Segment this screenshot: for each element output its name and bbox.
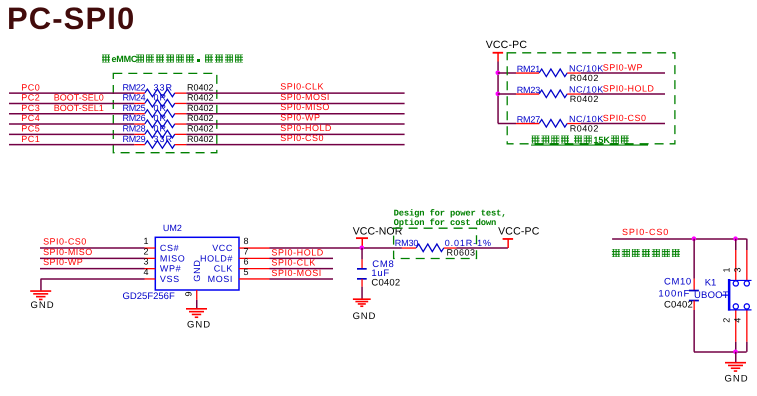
wire to RM21 bbox=[498, 72, 516, 74]
wire junction to CM8 bbox=[361, 248, 363, 260]
wire net SPI0-CS0 to UM2 bbox=[40, 247, 145, 249]
svg-text:R0402: R0402 bbox=[570, 94, 599, 104]
svg-text:SPI0-MISO: SPI0-MISO bbox=[43, 247, 93, 257]
svg-text:GD25F256F: GD25F256F bbox=[123, 291, 175, 302]
svg-text:RM23: RM23 bbox=[517, 85, 541, 95]
svg-text:RM25: RM25 bbox=[123, 103, 146, 113]
svg-text:RM28: RM28 bbox=[123, 124, 146, 134]
wire net SPI0-CS0 right segment bbox=[186, 144, 404, 146]
svg-text:R0402: R0402 bbox=[187, 134, 214, 144]
resistor RM28 0R bbox=[123, 124, 214, 138]
pin 4 (VSS) of UM2 bbox=[143, 267, 179, 284]
svg-text:4: 4 bbox=[143, 267, 148, 277]
wire net SPI0-MOSI right segment bbox=[186, 102, 404, 104]
svg-text:GND: GND bbox=[31, 300, 55, 311]
svg-text:5: 5 bbox=[244, 267, 249, 277]
annotation: Design for power test / Option for cost down bbox=[394, 209, 507, 228]
svg-text:GND: GND bbox=[192, 259, 202, 281]
svg-text:K1: K1 bbox=[705, 278, 717, 289]
wire net SPI0-WP bbox=[581, 72, 665, 74]
svg-text:SPI0-MISO: SPI0-MISO bbox=[280, 102, 330, 112]
wire to CM10 bbox=[693, 239, 695, 279]
wire net SPI0-HOLD from UM2 bbox=[270, 257, 334, 259]
svg-text:MOSI: MOSI bbox=[208, 274, 233, 284]
svg-text:VCC-PC: VCC-PC bbox=[486, 39, 528, 51]
svg-text:SPI0-WP: SPI0-WP bbox=[280, 113, 320, 123]
svg-text:3: 3 bbox=[143, 257, 148, 267]
svg-text:VSS: VSS bbox=[160, 274, 180, 284]
svg-text:SPI0-MOSI: SPI0-MOSI bbox=[280, 92, 330, 102]
dashed box around RM30 bbox=[394, 228, 477, 258]
wire switch pin 1 drop bbox=[735, 239, 737, 250]
flash chip UM2 body bbox=[155, 237, 239, 290]
junction at ground rail bbox=[733, 350, 738, 355]
svg-text:PC5: PC5 bbox=[21, 124, 40, 134]
svg-text:SPI0-CS0: SPI0-CS0 bbox=[622, 227, 669, 237]
svg-text:0R: 0R bbox=[154, 103, 168, 113]
svg-text:7: 7 bbox=[244, 246, 249, 256]
svg-text:GND: GND bbox=[353, 311, 377, 322]
svg-text:RM26: RM26 bbox=[123, 113, 146, 123]
wire to RM23 bbox=[498, 93, 516, 95]
svg-text:HOLD#: HOLD# bbox=[200, 253, 233, 263]
wire net PC1 left segment bbox=[9, 144, 134, 146]
ground symbol below UM2 bbox=[186, 309, 207, 317]
svg-text:R0402: R0402 bbox=[187, 82, 214, 92]
pin 3 (WP#) of UM2 bbox=[143, 257, 181, 274]
svg-text:9: 9 bbox=[184, 291, 194, 296]
svg-text:MISO: MISO bbox=[160, 253, 185, 263]
pin 9 (pad) of UM2 bbox=[184, 290, 197, 300]
svg-text:SPI0-WP: SPI0-WP bbox=[603, 63, 643, 73]
wire VCC-PC vertical rail bbox=[497, 62, 499, 124]
wire net SPI0-CS0 bbox=[581, 123, 665, 125]
resistor RM29 33R bbox=[123, 134, 214, 148]
wire net PC4 left segment bbox=[9, 123, 134, 125]
svg-text:PC0: PC0 bbox=[21, 82, 40, 92]
svg-text:2: 2 bbox=[143, 246, 148, 256]
wire RM30 to VCC-PC bbox=[456, 247, 508, 249]
svg-text:R0402: R0402 bbox=[187, 93, 214, 103]
svg-text:CLK: CLK bbox=[214, 264, 233, 274]
wire switch pin 3 drop bbox=[746, 239, 748, 250]
resistor RM27 NC/10K bbox=[516, 114, 604, 133]
svg-text:eMMC: eMMC bbox=[112, 54, 138, 64]
svg-text:R0402: R0402 bbox=[187, 103, 214, 113]
svg-text:R0402: R0402 bbox=[570, 73, 599, 83]
resistor RM26 0R bbox=[123, 113, 214, 127]
wire net PC0 left segment bbox=[9, 92, 134, 94]
annotation: default use internal 15K pull-up note bbox=[531, 135, 648, 145]
svg-text:SPI0-WP: SPI0-WP bbox=[43, 257, 83, 267]
svg-text:RM22: RM22 bbox=[123, 82, 146, 92]
dashed box around pull-up resistors bbox=[507, 53, 675, 144]
power symbol VCC-PC mid bbox=[498, 225, 540, 248]
junction at CM10 bbox=[692, 236, 697, 241]
svg-text:0.01R-1%: 0.01R-1% bbox=[445, 238, 492, 248]
ground symbol at VSS bbox=[30, 291, 51, 299]
svg-text:RM29: RM29 bbox=[123, 134, 146, 144]
wire switch pins to ground rail bbox=[735, 342, 737, 352]
svg-text:C0402: C0402 bbox=[664, 299, 693, 310]
wire net PC2 left segment bbox=[9, 102, 134, 104]
svg-text:VCC-PC: VCC-PC bbox=[498, 225, 540, 237]
wire net SPI0-WP to UM2 bbox=[40, 268, 145, 270]
wire net SPI0-CLK from UM2 bbox=[270, 268, 334, 270]
svg-text:UM2: UM2 bbox=[163, 223, 182, 233]
ground symbol at CM8 bbox=[353, 299, 371, 306]
svg-text:C0402: C0402 bbox=[371, 278, 400, 289]
wire net SPI0-CLK right segment bbox=[186, 92, 404, 94]
svg-text:RM24: RM24 bbox=[123, 93, 146, 103]
annotation: press at power-on to enter burn mode bbox=[612, 249, 680, 257]
svg-text:PC2: PC2 bbox=[21, 93, 40, 103]
capacitor CM8 1uF bbox=[357, 259, 400, 288]
svg-text:SPI0-CS0: SPI0-CS0 bbox=[603, 113, 647, 123]
wire to ground symbol bbox=[735, 352, 737, 362]
pin 1 (CS#) of UM2 bbox=[143, 236, 179, 253]
svg-text:0R: 0R bbox=[154, 113, 168, 123]
svg-text:0R: 0R bbox=[154, 93, 168, 103]
svg-text:GND: GND bbox=[725, 373, 749, 384]
resistor RM30 0.01R-1% bbox=[395, 238, 492, 258]
svg-text:15K: 15K bbox=[593, 135, 610, 145]
resistor RM21 NC/10K bbox=[516, 64, 604, 83]
svg-text:RM21: RM21 bbox=[517, 64, 541, 74]
junction at switch pin 1 bbox=[733, 236, 738, 241]
wire to RM27 bbox=[498, 123, 516, 125]
resistor RM24 0R bbox=[123, 93, 214, 107]
ground symbol at K1 bbox=[725, 363, 746, 371]
svg-text:SPI0-MOSI: SPI0-MOSI bbox=[271, 268, 321, 278]
svg-text:1: 1 bbox=[722, 267, 732, 272]
wire VSS to ground bbox=[41, 278, 145, 280]
capacitor CM10 100nF bbox=[658, 276, 699, 310]
wire CM10 to bottom rail bbox=[693, 310, 695, 352]
power symbol VCC-NOR bbox=[353, 226, 403, 248]
svg-text:WP#: WP# bbox=[160, 264, 181, 274]
svg-text:RM27: RM27 bbox=[517, 114, 541, 124]
wire net SPI0-MISO to UM2 bbox=[40, 257, 145, 259]
pin 8 (VCC) of UM2 bbox=[212, 236, 269, 253]
resistor RM23 NC/10K bbox=[516, 85, 604, 104]
resistor RM22 33R bbox=[123, 82, 214, 96]
pin 5 (MOSI) of UM2 bbox=[208, 267, 270, 284]
svg-text:0R: 0R bbox=[154, 124, 168, 134]
svg-text:SPI0-CS0: SPI0-CS0 bbox=[280, 133, 324, 143]
svg-text:SPI0-HOLD: SPI0-HOLD bbox=[603, 84, 655, 94]
svg-text:SPI0-CS0: SPI0-CS0 bbox=[43, 237, 87, 247]
pin 2 (MISO) of UM2 bbox=[143, 246, 185, 263]
svg-text:8: 8 bbox=[244, 236, 249, 246]
junction at RM23 row bbox=[496, 92, 501, 97]
svg-text:SPI0-HOLD: SPI0-HOLD bbox=[280, 123, 332, 133]
svg-text:R0402: R0402 bbox=[187, 113, 214, 123]
svg-text:GND: GND bbox=[187, 320, 211, 331]
wire net SPI0-HOLD right segment bbox=[186, 133, 404, 135]
svg-text:1: 1 bbox=[143, 236, 148, 246]
switch K1 UBOOT bbox=[694, 250, 752, 342]
svg-text:6: 6 bbox=[244, 257, 249, 267]
pin 7 (HOLD#) of UM2 bbox=[200, 246, 270, 263]
svg-text:33R: 33R bbox=[154, 82, 174, 92]
wire net SPI0-MISO right segment bbox=[186, 113, 404, 115]
svg-text:PC4: PC4 bbox=[21, 113, 40, 123]
svg-text:CS#: CS# bbox=[160, 243, 179, 253]
svg-text:Option for cost down: Option for cost down bbox=[394, 218, 497, 228]
dashed box around series resistors bbox=[113, 73, 217, 152]
svg-text:BOOT-SEL1: BOOT-SEL1 bbox=[54, 103, 104, 113]
svg-text:R0603: R0603 bbox=[447, 248, 476, 258]
resistor RM25 0R bbox=[123, 103, 214, 117]
svg-text:BOOT-SEL0: BOOT-SEL0 bbox=[54, 93, 104, 103]
svg-text:SPI0-CLK: SPI0-CLK bbox=[280, 82, 324, 92]
svg-text:33R: 33R bbox=[154, 134, 174, 144]
wire CM8 to ground bbox=[361, 287, 363, 299]
wire net PC5 left segment bbox=[9, 133, 134, 135]
svg-text:CM10: CM10 bbox=[664, 276, 692, 287]
svg-text:R0402: R0402 bbox=[570, 123, 599, 133]
annotation: place near eMMC resistors note bbox=[102, 54, 243, 64]
svg-text:R0402: R0402 bbox=[187, 124, 214, 134]
junction VCC-NOR node bbox=[360, 246, 365, 251]
svg-text:PC3: PC3 bbox=[21, 103, 40, 113]
wire pad to ground bbox=[196, 300, 198, 308]
wire VCC rail from UM2 pin 8 bbox=[270, 247, 402, 249]
pin 6 (CLK) of UM2 bbox=[214, 257, 270, 274]
svg-text:SPI0-CLK: SPI0-CLK bbox=[271, 258, 315, 268]
svg-text:2: 2 bbox=[722, 318, 732, 323]
svg-text:RM30: RM30 bbox=[395, 238, 419, 248]
svg-text:4: 4 bbox=[733, 318, 743, 323]
junction at RM21 row bbox=[496, 71, 501, 76]
wire net SPI0-CS0 bottom bbox=[612, 238, 747, 240]
wire net SPI0-WP right segment bbox=[186, 123, 404, 125]
power symbol VCC-PC top bbox=[486, 39, 528, 62]
svg-text:PC-SPI0: PC-SPI0 bbox=[7, 1, 135, 36]
wire net SPI0-MOSI from UM2 bbox=[270, 278, 334, 280]
wire net SPI0-HOLD bbox=[581, 93, 665, 95]
svg-text:PC1: PC1 bbox=[21, 134, 40, 144]
svg-text:100nF: 100nF bbox=[658, 288, 690, 299]
wire net PC3 left segment bbox=[9, 113, 134, 115]
svg-text:3: 3 bbox=[733, 267, 743, 272]
svg-text:VCC: VCC bbox=[212, 243, 233, 253]
